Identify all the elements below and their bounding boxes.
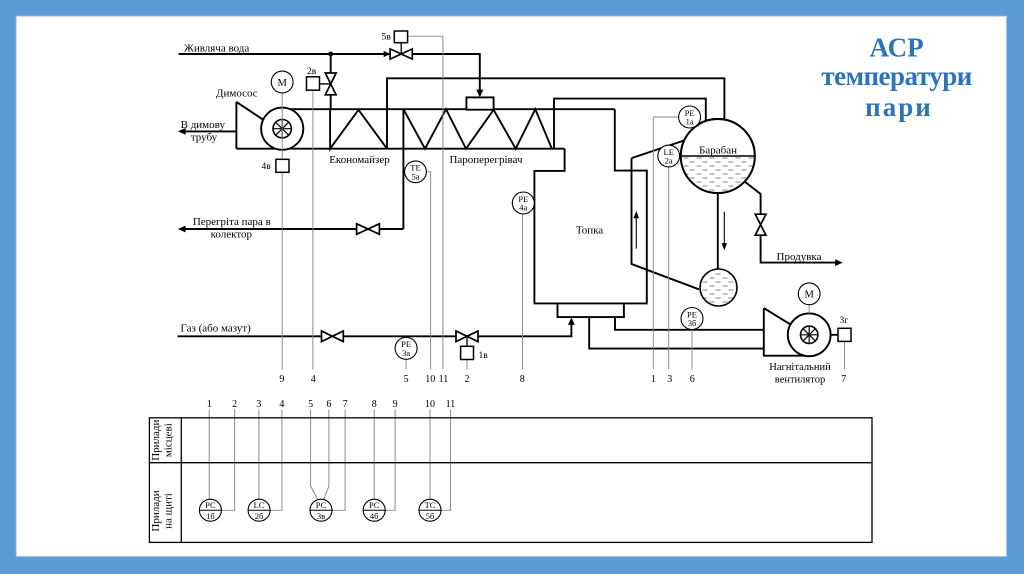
svg-text:трубу: трубу [191,132,218,144]
svg-text:Прилади: Прилади [150,419,162,460]
svg-text:РС: РС [369,500,380,510]
svg-text:6: 6 [690,374,695,385]
svg-text:2б: 2б [255,511,264,521]
svg-text:Продувка: Продувка [777,251,822,263]
svg-text:вентилятор: вентилятор [775,374,825,385]
svg-text:Перегріта пара в: Перегріта пара в [193,216,271,228]
svg-text:місцеві: місцеві [162,423,174,457]
svg-text:М: М [805,290,815,301]
svg-text:2а: 2а [665,156,673,166]
svg-text:1а: 1а [686,117,694,127]
svg-text:3б: 3б [688,318,697,328]
svg-text:4б: 4б [370,511,379,521]
svg-text:4а: 4а [519,203,527,213]
svg-text:10: 10 [425,399,435,410]
svg-text:5а: 5а [411,171,419,181]
svg-text:4: 4 [279,399,284,410]
svg-text:Пароперегрівач: Пароперегрівач [449,154,523,166]
svg-text:1: 1 [207,399,212,410]
svg-text:4в: 4в [262,162,272,172]
svg-text:температури: температури [821,61,971,91]
svg-text:2: 2 [232,399,237,410]
svg-text:Топка: Топка [576,224,603,236]
svg-text:1: 1 [651,374,656,385]
svg-text:7: 7 [841,374,846,385]
svg-text:5б: 5б [426,511,435,521]
svg-text:М: М [278,78,288,89]
svg-text:на щиті: на щиті [162,493,174,529]
svg-text:11: 11 [439,374,449,385]
svg-text:5: 5 [404,374,409,385]
svg-text:3: 3 [667,374,672,385]
svg-text:11: 11 [446,399,456,410]
svg-text:2в: 2в [307,67,317,77]
svg-text:В димову: В димову [181,119,226,131]
svg-text:Прилади: Прилади [150,490,162,531]
svg-text:8: 8 [372,399,377,410]
svg-text:3: 3 [256,399,261,410]
svg-text:10: 10 [425,374,435,385]
svg-text:5в: 5в [382,32,392,42]
svg-text:6: 6 [326,399,331,410]
svg-text:8: 8 [520,374,525,385]
svg-text:АСР: АСР [870,33,924,63]
svg-text:5: 5 [308,399,313,410]
svg-text:3в: 3в [317,511,325,521]
svg-text:9: 9 [279,374,284,385]
svg-text:колектор: колектор [211,229,253,241]
svg-text:Димосос: Димосос [216,88,258,100]
svg-text:пари: пари [865,92,933,122]
svg-text:1б: 1б [206,511,215,521]
svg-text:3г: 3г [840,316,849,326]
svg-text:3а: 3а [402,348,410,358]
svg-text:Економайзер: Економайзер [329,154,390,166]
svg-text:7: 7 [343,399,348,410]
svg-text:1в: 1в [479,351,489,361]
svg-text:LС: LС [254,500,265,510]
svg-text:Нагнітальний: Нагнітальний [769,362,831,373]
svg-text:Барабан: Барабан [699,145,737,157]
svg-text:2: 2 [465,374,470,385]
svg-text:Газ (або мазут): Газ (або мазут) [181,322,252,334]
svg-text:4: 4 [311,374,316,385]
svg-text:Живляча вода: Живляча вода [184,42,249,54]
svg-text:РС: РС [316,500,327,510]
svg-text:9: 9 [393,399,398,410]
svg-text:ТС: ТС [425,500,436,510]
svg-text:РС: РС [205,500,216,510]
